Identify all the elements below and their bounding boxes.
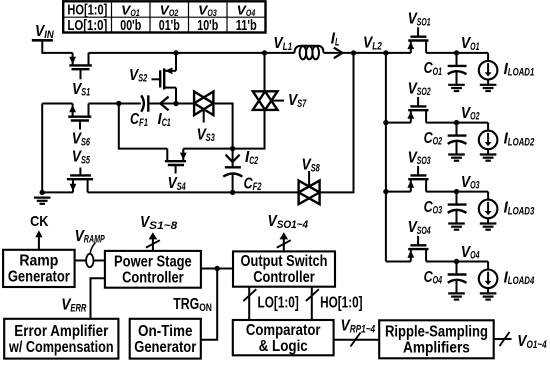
block Output Switch Controller (233, 251, 335, 286)
label CO4 (424, 269, 442, 287)
wire bus to VSO2 (386, 122, 411, 124)
current arrow IC2 (226, 149, 240, 168)
switch VS8 (299, 171, 320, 204)
wire bus to VSO4 (386, 261, 411, 263)
current source ILOAD3 (479, 192, 498, 224)
wire VS4 to node X (183, 148, 232, 150)
label VS1 (72, 81, 90, 99)
capacitor CF2 (223, 167, 242, 192)
label VS8 (302, 157, 320, 175)
label ILOAD3 (504, 200, 535, 218)
table cell VO2 (160, 2, 179, 18)
node TRG junction (215, 266, 220, 271)
wire node A down to VS4 (119, 104, 168, 149)
current source ILOAD4 (479, 262, 498, 294)
label VS2 (129, 67, 147, 85)
node VO4 (454, 259, 459, 264)
current source ILOAD2 (479, 123, 498, 155)
label VSO1 (408, 11, 431, 29)
ground CO1 (448, 85, 465, 91)
label IL (331, 31, 340, 49)
svg-text:Error Amplifier: Error Amplifier (14, 323, 108, 340)
transistor VS6 (68, 104, 91, 130)
wire VIN to VS1 (42, 40, 72, 53)
wire VO1-4 output (494, 332, 512, 346)
svg-text:10'b: 10'b (197, 18, 218, 34)
VIN supply label (35, 23, 54, 41)
label VS1-8 (140, 214, 177, 232)
ground ILOAD1 (480, 85, 497, 91)
label ILOAD2 (504, 131, 535, 149)
ground CO2 (448, 155, 465, 161)
wire VS7 drop to node X (233, 110, 265, 149)
svg-text:LO[1:0]: LO[1:0] (258, 295, 299, 312)
node VO2 (454, 120, 459, 125)
label VO1 (461, 35, 480, 53)
wire HO bus (306, 287, 319, 320)
svg-text:Power Stage: Power Stage (114, 253, 192, 270)
wire VSO1 to VO1 (426, 52, 488, 54)
label VSO1-4 (268, 213, 309, 231)
label VO1-4 (517, 333, 546, 351)
node X junction (230, 146, 235, 151)
node VL2 junction (351, 50, 356, 55)
capacitor CO2 (448, 123, 467, 155)
svg-text:01'b: 01'b (159, 18, 180, 34)
switch VS7 (253, 91, 284, 110)
wire VS6 to CF1 node (89, 103, 141, 105)
transistor VSO4 (407, 236, 428, 262)
coupling ellipse VRAMP (86, 243, 95, 268)
label CF2 (244, 175, 262, 193)
svg-text:Controller: Controller (122, 269, 184, 286)
label IC2 (245, 149, 258, 167)
transistor VS5 (67, 168, 93, 193)
table cell 10'b (197, 18, 218, 34)
svg-text:w/ Compensation: w/ Compensation (8, 339, 113, 356)
truth table frame (63, 1, 265, 32)
node B junction (173, 101, 178, 106)
wire left vertical to ground (41, 104, 43, 193)
wire VRP bus (334, 333, 380, 347)
block Power Stage Controller (105, 251, 201, 288)
label VRAMP (75, 228, 106, 246)
ground ILOAD2 (480, 155, 497, 161)
wire output bus vertical (385, 53, 387, 262)
svg-text:Comparator: Comparator (246, 322, 321, 339)
label VS3 (197, 126, 215, 144)
label ILOAD4 (504, 269, 535, 287)
block Comparator Logic (233, 320, 334, 355)
wire VSO4 to VO4 (426, 261, 488, 263)
svg-text:Generator: Generator (8, 269, 70, 286)
label HO[1:0] (320, 295, 363, 312)
ground ILOAD4 (480, 293, 497, 299)
wire VRAMP (75, 260, 105, 262)
svg-text:Output Switch: Output Switch (241, 253, 328, 270)
label IC1 (158, 111, 171, 129)
svg-text:CK: CK (30, 213, 49, 230)
wire node B to VS3 (176, 103, 194, 105)
wire bottom rail (88, 191, 299, 193)
current arrow IC1 (160, 97, 176, 111)
label CO2 (424, 130, 442, 148)
ground CO4 (448, 293, 465, 299)
svg-text:& Logic: & Logic (259, 338, 308, 355)
label CO3 (424, 199, 442, 217)
wire left column top (42, 103, 72, 105)
ground main (34, 190, 51, 204)
label VRP1-4 (341, 318, 376, 336)
svg-text:HO[1:0]: HO[1:0] (320, 295, 363, 312)
wire VS8 to VL2 (320, 53, 354, 193)
wire VL1 down to VS7 (264, 53, 266, 91)
transistor VS1 (69, 53, 92, 79)
block On-Time Generator (130, 319, 201, 359)
block Ripple-Sampling Amplifiers (379, 320, 494, 358)
transistor VSO1 (407, 27, 428, 53)
signal VSO1-4 arrow (277, 232, 291, 251)
table header HO[1:0] (67, 3, 107, 19)
block Ramp Generator (3, 250, 75, 287)
table cell LO[1:0] (67, 18, 107, 34)
label VO2 (461, 105, 480, 123)
capacitor CO3 (448, 192, 467, 224)
svg-text:LO[1:0]: LO[1:0] (67, 18, 107, 34)
ground ILOAD3 (480, 224, 497, 230)
label VERR (61, 297, 86, 315)
label VS5 (72, 149, 91, 167)
wire bus to VSO3 (386, 191, 411, 193)
label VO4 (461, 244, 480, 262)
svg-text:Amplifiers: Amplifiers (403, 339, 470, 356)
transistor VS2 (152, 53, 177, 104)
svg-text:Ramp: Ramp (19, 253, 58, 270)
label VS6 (72, 131, 91, 149)
inductor L (295, 46, 324, 60)
table cell VO1 (121, 2, 140, 18)
signal VS1-8 arrow (146, 232, 160, 251)
label VL1 (273, 35, 292, 53)
current arrow IL (334, 48, 343, 59)
transistor VSO2 (407, 97, 428, 123)
wire TRG vertical (201, 269, 217, 340)
label CF1 (130, 111, 148, 129)
label CO1 (424, 60, 442, 78)
capacitor CO4 (448, 262, 467, 294)
capacitor CO1 (448, 53, 467, 85)
svg-text:Controller: Controller (253, 269, 315, 286)
transistor VS4 (165, 149, 187, 174)
svg-text:Generator: Generator (134, 339, 196, 356)
block Error Amplifier (4, 319, 118, 359)
signal CK arrow (35, 230, 42, 250)
table cell VO4 (237, 2, 256, 18)
label VSO4 (408, 219, 431, 237)
node bus branch 2 (383, 120, 388, 125)
svg-text:On-Time: On-Time (138, 323, 193, 340)
node VO1 (454, 50, 459, 55)
table cell 01'b (159, 18, 180, 34)
node VS2 drain on rail (173, 50, 178, 55)
node VO3 (454, 189, 459, 194)
label ILOAD1 (504, 61, 535, 79)
wire VERR (91, 278, 105, 319)
svg-text:11'b: 11'b (236, 18, 257, 34)
wire VL2 to output bus (354, 52, 411, 54)
wire inductor to VL2 (324, 52, 354, 54)
table cell VO3 (198, 2, 217, 18)
ground CO3 (448, 224, 465, 230)
label VS7 (288, 92, 307, 110)
node bus branch 3 (383, 189, 388, 194)
transistor VSO3 (407, 166, 428, 192)
label VL2 (363, 35, 382, 53)
wire VSO3 to VO3 (426, 191, 488, 193)
wire VSO2 to VO2 (426, 122, 488, 124)
wire VS3 to node X (213, 104, 232, 149)
wire ground to VS5 (42, 191, 73, 193)
table cell 00'b (120, 18, 141, 34)
label CK (30, 213, 49, 230)
svg-text:HO[1:0]: HO[1:0] (67, 3, 107, 19)
label LO[1:0] (258, 295, 299, 312)
wire rail VS1 to VL1 (89, 52, 295, 54)
node output bus top (383, 50, 388, 55)
node A junction (116, 101, 121, 106)
label VSO3 (408, 149, 431, 167)
wire LO bus (243, 287, 256, 320)
node VL1 junction (262, 50, 267, 55)
label TRGON (173, 296, 212, 314)
wire PSC to OSC (201, 268, 233, 270)
svg-text:Ripple-Sampling: Ripple-Sampling (385, 323, 488, 340)
node CF2 bottom junction (230, 190, 235, 195)
switch VS3 (194, 92, 213, 123)
capacitor CF1 (141, 95, 160, 111)
svg-text:00'b: 00'b (120, 18, 141, 34)
VIN supply bar (32, 39, 53, 42)
label VSO2 (408, 80, 431, 98)
label VS4 (168, 175, 186, 193)
current source ILOAD1 (479, 53, 498, 85)
table cell 11'b (236, 18, 257, 34)
label VO3 (461, 174, 480, 192)
